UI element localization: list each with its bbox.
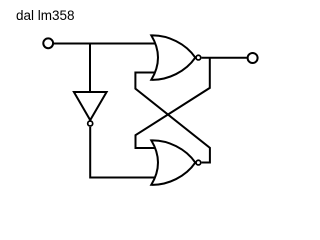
- NOR gate U1 body: [151, 35, 195, 79]
- wire branch down to inverter: [89, 44, 91, 93]
- NOR gate U2 output bubble: [196, 160, 201, 165]
- wire U1 output feedback to U2 upper input: [136, 58, 210, 148]
- wire input to gate U1 top input: [53, 43, 155, 45]
- input terminal: [43, 38, 53, 48]
- inverter bubble: [88, 121, 93, 126]
- wire U2 output feedback to U1 lower input: [135, 73, 210, 163]
- NOR gate U1 output bubble: [196, 55, 201, 60]
- wire U1 output to output terminal: [202, 57, 247, 59]
- output terminal: [248, 53, 258, 63]
- wire inverter output to U2 lower input: [90, 127, 154, 178]
- NOR gate U2 body: [151, 140, 195, 184]
- label "dal lm358": [16, 8, 75, 23]
- inverter U3: [74, 92, 107, 120]
